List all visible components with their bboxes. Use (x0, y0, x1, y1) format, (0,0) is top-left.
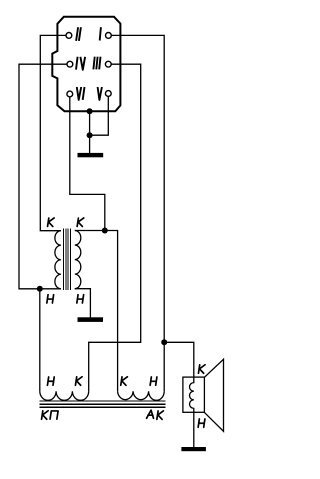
ground 3 (speaker) (181, 447, 206, 451)
pin I label (100, 27, 101, 40)
AK winding name A (147, 410, 154, 418)
AK label H (150, 377, 157, 385)
pin VI label (77, 87, 85, 100)
junction node K right (102, 228, 108, 234)
T1 label H right (77, 295, 84, 303)
junction node H left (37, 286, 43, 292)
speaker body rect (183, 377, 205, 412)
wire node H down to KP winding (39, 289, 41, 392)
wire pin VI to T1 secondary K (70, 97, 105, 231)
wire speaker H to ground (193, 412, 195, 447)
pin I circle (106, 33, 112, 39)
pin II circle (66, 33, 72, 39)
pin II label (76, 27, 81, 41)
output transformer KP winding (3 bumps) (40, 391, 89, 400)
pin V label (98, 87, 102, 100)
speaker label K (198, 365, 205, 374)
speaker label H (198, 419, 205, 427)
pin VI circle (67, 91, 73, 97)
KP label H (47, 377, 54, 385)
T1 label K right (77, 218, 84, 227)
junction dot shell (87, 108, 93, 114)
ground 2 (T1 secondary H) (78, 317, 104, 322)
wire pin IV to transformer T1 primary H (19, 64, 67, 289)
transformer T1 primary winding (left, 4 bumps) (55, 231, 61, 289)
AK label K (121, 377, 128, 386)
speaker cone (204, 359, 223, 431)
AK winding name K (157, 411, 164, 420)
T1 label K left (48, 218, 55, 227)
ground 1 (below socket) (78, 153, 104, 157)
tube socket outline (52, 17, 120, 112)
wire pin V to ground (90, 96, 109, 153)
pin III circle (105, 61, 111, 67)
output transformer core (3 lines) (40, 400, 166, 407)
wire pin II to transformer T1 primary K (40, 35, 66, 230)
pin IV circle (67, 61, 73, 67)
wire junction to speaker K (164, 342, 194, 377)
KP winding name K (42, 411, 49, 420)
pin III label (93, 57, 100, 70)
junction node V/shell/ground (87, 132, 93, 138)
wire pin I to AK winding H (111, 35, 164, 391)
speaker voice coil (190, 377, 194, 412)
junction node speaker branch (161, 339, 167, 345)
pin V circle (105, 91, 111, 97)
wire pin III to KP winding K (89, 64, 141, 391)
wire socket shell to node (89, 111, 91, 135)
transformer T1 secondary winding (right, 4 bumps) (75, 231, 81, 289)
wire T1 secondary H to ground (75, 289, 91, 318)
T1 label H left (47, 295, 54, 303)
KP winding name P (50, 411, 58, 419)
KP label K (75, 377, 82, 386)
pin IV label (76, 57, 85, 70)
output transformer AK winding (3 bumps) (118, 391, 165, 400)
transformer T1 core (4 lines) (63, 229, 71, 291)
wire T1 secondary K to AK winding (75, 231, 118, 392)
